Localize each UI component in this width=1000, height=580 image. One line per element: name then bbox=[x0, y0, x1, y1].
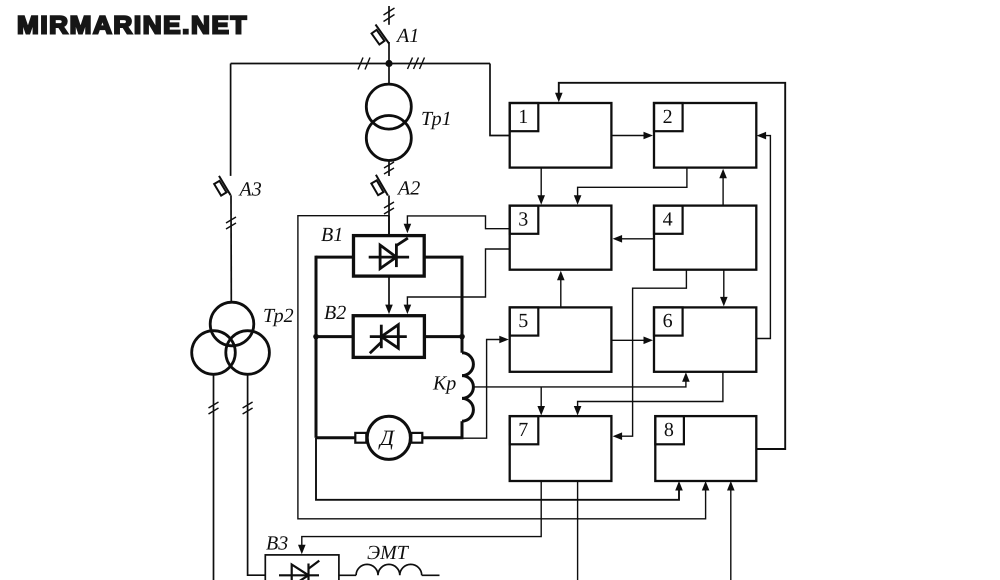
motor D bbox=[367, 416, 410, 459]
wire EMT right stub bbox=[422, 574, 440, 576]
breaker A3 bbox=[214, 64, 236, 303]
wire block 5 to block 3 bbox=[560, 276, 562, 307]
wire B3 to EMT bbox=[339, 574, 356, 576]
svg-text:А2: А2 bbox=[396, 178, 420, 200]
svg-text:4: 4 bbox=[663, 208, 673, 230]
svg-text:7: 7 bbox=[518, 419, 528, 441]
svg-text:6: 6 bbox=[663, 310, 673, 332]
thyristor block B3 bbox=[265, 555, 339, 580]
wire B1 to B2 bbox=[388, 276, 390, 307]
wire thick left B1-B2-motor bbox=[316, 256, 354, 438]
wire motor left bbox=[316, 436, 355, 439]
wire feedback block 8 to block 1 bbox=[559, 83, 785, 449]
svg-text:8: 8 bbox=[664, 419, 674, 441]
block 7 bbox=[510, 416, 612, 481]
wire Kp tap to blocks 6 and 7 bbox=[474, 376, 686, 387]
wire block 1 to block 2 bbox=[611, 135, 649, 137]
node dot left bbox=[313, 334, 319, 340]
svg-text:В1: В1 bbox=[321, 224, 343, 246]
wire bottom into block 8 bbox=[730, 485, 732, 580]
block 6 bbox=[654, 307, 756, 371]
svg-text:Д: Д bbox=[378, 425, 395, 450]
wire thick right B1-B2 bbox=[424, 256, 462, 353]
wire control to B2 gate (from block 3) bbox=[407, 249, 509, 307]
wire input to block 1 bbox=[490, 64, 510, 136]
wire top supply bus bbox=[231, 63, 490, 65]
brush right bbox=[411, 433, 422, 443]
wire tee down to block 7 bbox=[540, 387, 542, 409]
hash marks 3-line right bbox=[408, 58, 425, 70]
svg-text:Тр1: Тр1 bbox=[421, 108, 452, 130]
block 1 bbox=[510, 103, 612, 168]
svg-text:2: 2 bbox=[663, 106, 673, 128]
block 8 bbox=[655, 416, 756, 481]
wire block 7 to B3 bbox=[302, 481, 541, 549]
svg-text:В2: В2 bbox=[324, 302, 346, 324]
wire motor node to block 5 bbox=[462, 340, 506, 439]
svg-text:А3: А3 bbox=[238, 179, 262, 201]
wire block 4 to block 2 bbox=[722, 175, 724, 206]
wire motor tap to block 8 bbox=[316, 438, 679, 500]
svg-text:3: 3 bbox=[518, 208, 528, 230]
svg-text:Тр2: Тр2 bbox=[263, 305, 294, 327]
wire A2 to B1 top bbox=[388, 216, 390, 236]
transformer Tp1 bbox=[366, 64, 411, 177]
inductor Kp bbox=[462, 353, 473, 438]
svg-text:ЭМТ: ЭМТ bbox=[367, 542, 410, 564]
svg-text:В3: В3 bbox=[266, 533, 288, 555]
svg-text:А1: А1 bbox=[395, 25, 419, 47]
wire motor right to coil bbox=[422, 436, 463, 439]
svg-text:MIRMARINE.NET: MIRMARINE.NET bbox=[17, 12, 248, 40]
wire Tp2 right leg to B3 bbox=[243, 374, 266, 575]
wire block 6 to block 2 bbox=[756, 136, 770, 339]
thyristor block B1 bbox=[354, 236, 425, 277]
wire block 4 to block 6 bbox=[723, 270, 725, 301]
svg-text:1: 1 bbox=[518, 106, 528, 128]
svg-text:Кр: Кр bbox=[432, 373, 456, 395]
wire block 4 to block 3 bbox=[618, 238, 655, 240]
wire block 5 to block 6 bbox=[611, 339, 648, 341]
block 2 bbox=[654, 103, 756, 168]
wire block 4 to block 7 bbox=[618, 270, 687, 436]
thyristor block B2 bbox=[353, 316, 424, 358]
node junction A1/Tp1 bbox=[385, 60, 392, 67]
wire block 6 to block 7 bbox=[578, 372, 723, 409]
wire tap to block 8 (from main line) bbox=[298, 216, 706, 519]
thyristor symbol in B2 (mirrored) bbox=[370, 325, 407, 354]
node dot right bbox=[459, 334, 465, 340]
wire block 1 to block 3 bbox=[540, 167, 542, 199]
wire control to B1 gate (from block 3) bbox=[407, 216, 509, 229]
brush left bbox=[355, 433, 366, 443]
block 5 bbox=[510, 307, 612, 371]
wire Tp2 left leg bbox=[209, 374, 219, 580]
thyristor symbol in B1 bbox=[369, 238, 409, 269]
transformer Tp2 bbox=[192, 302, 270, 374]
breaker A2 bbox=[371, 162, 394, 236]
block 4 bbox=[654, 206, 756, 270]
block 3 bbox=[510, 206, 612, 270]
hash marks 2-line left bbox=[358, 58, 370, 70]
thyristor symbol in B3 bbox=[279, 561, 319, 580]
breaker A1 bbox=[372, 6, 395, 64]
wire block 7 bottom exit bbox=[577, 481, 579, 580]
svg-text:5: 5 bbox=[518, 310, 528, 332]
inductor EMT bbox=[356, 564, 422, 575]
wire block 2 to block 3 bbox=[578, 168, 687, 199]
